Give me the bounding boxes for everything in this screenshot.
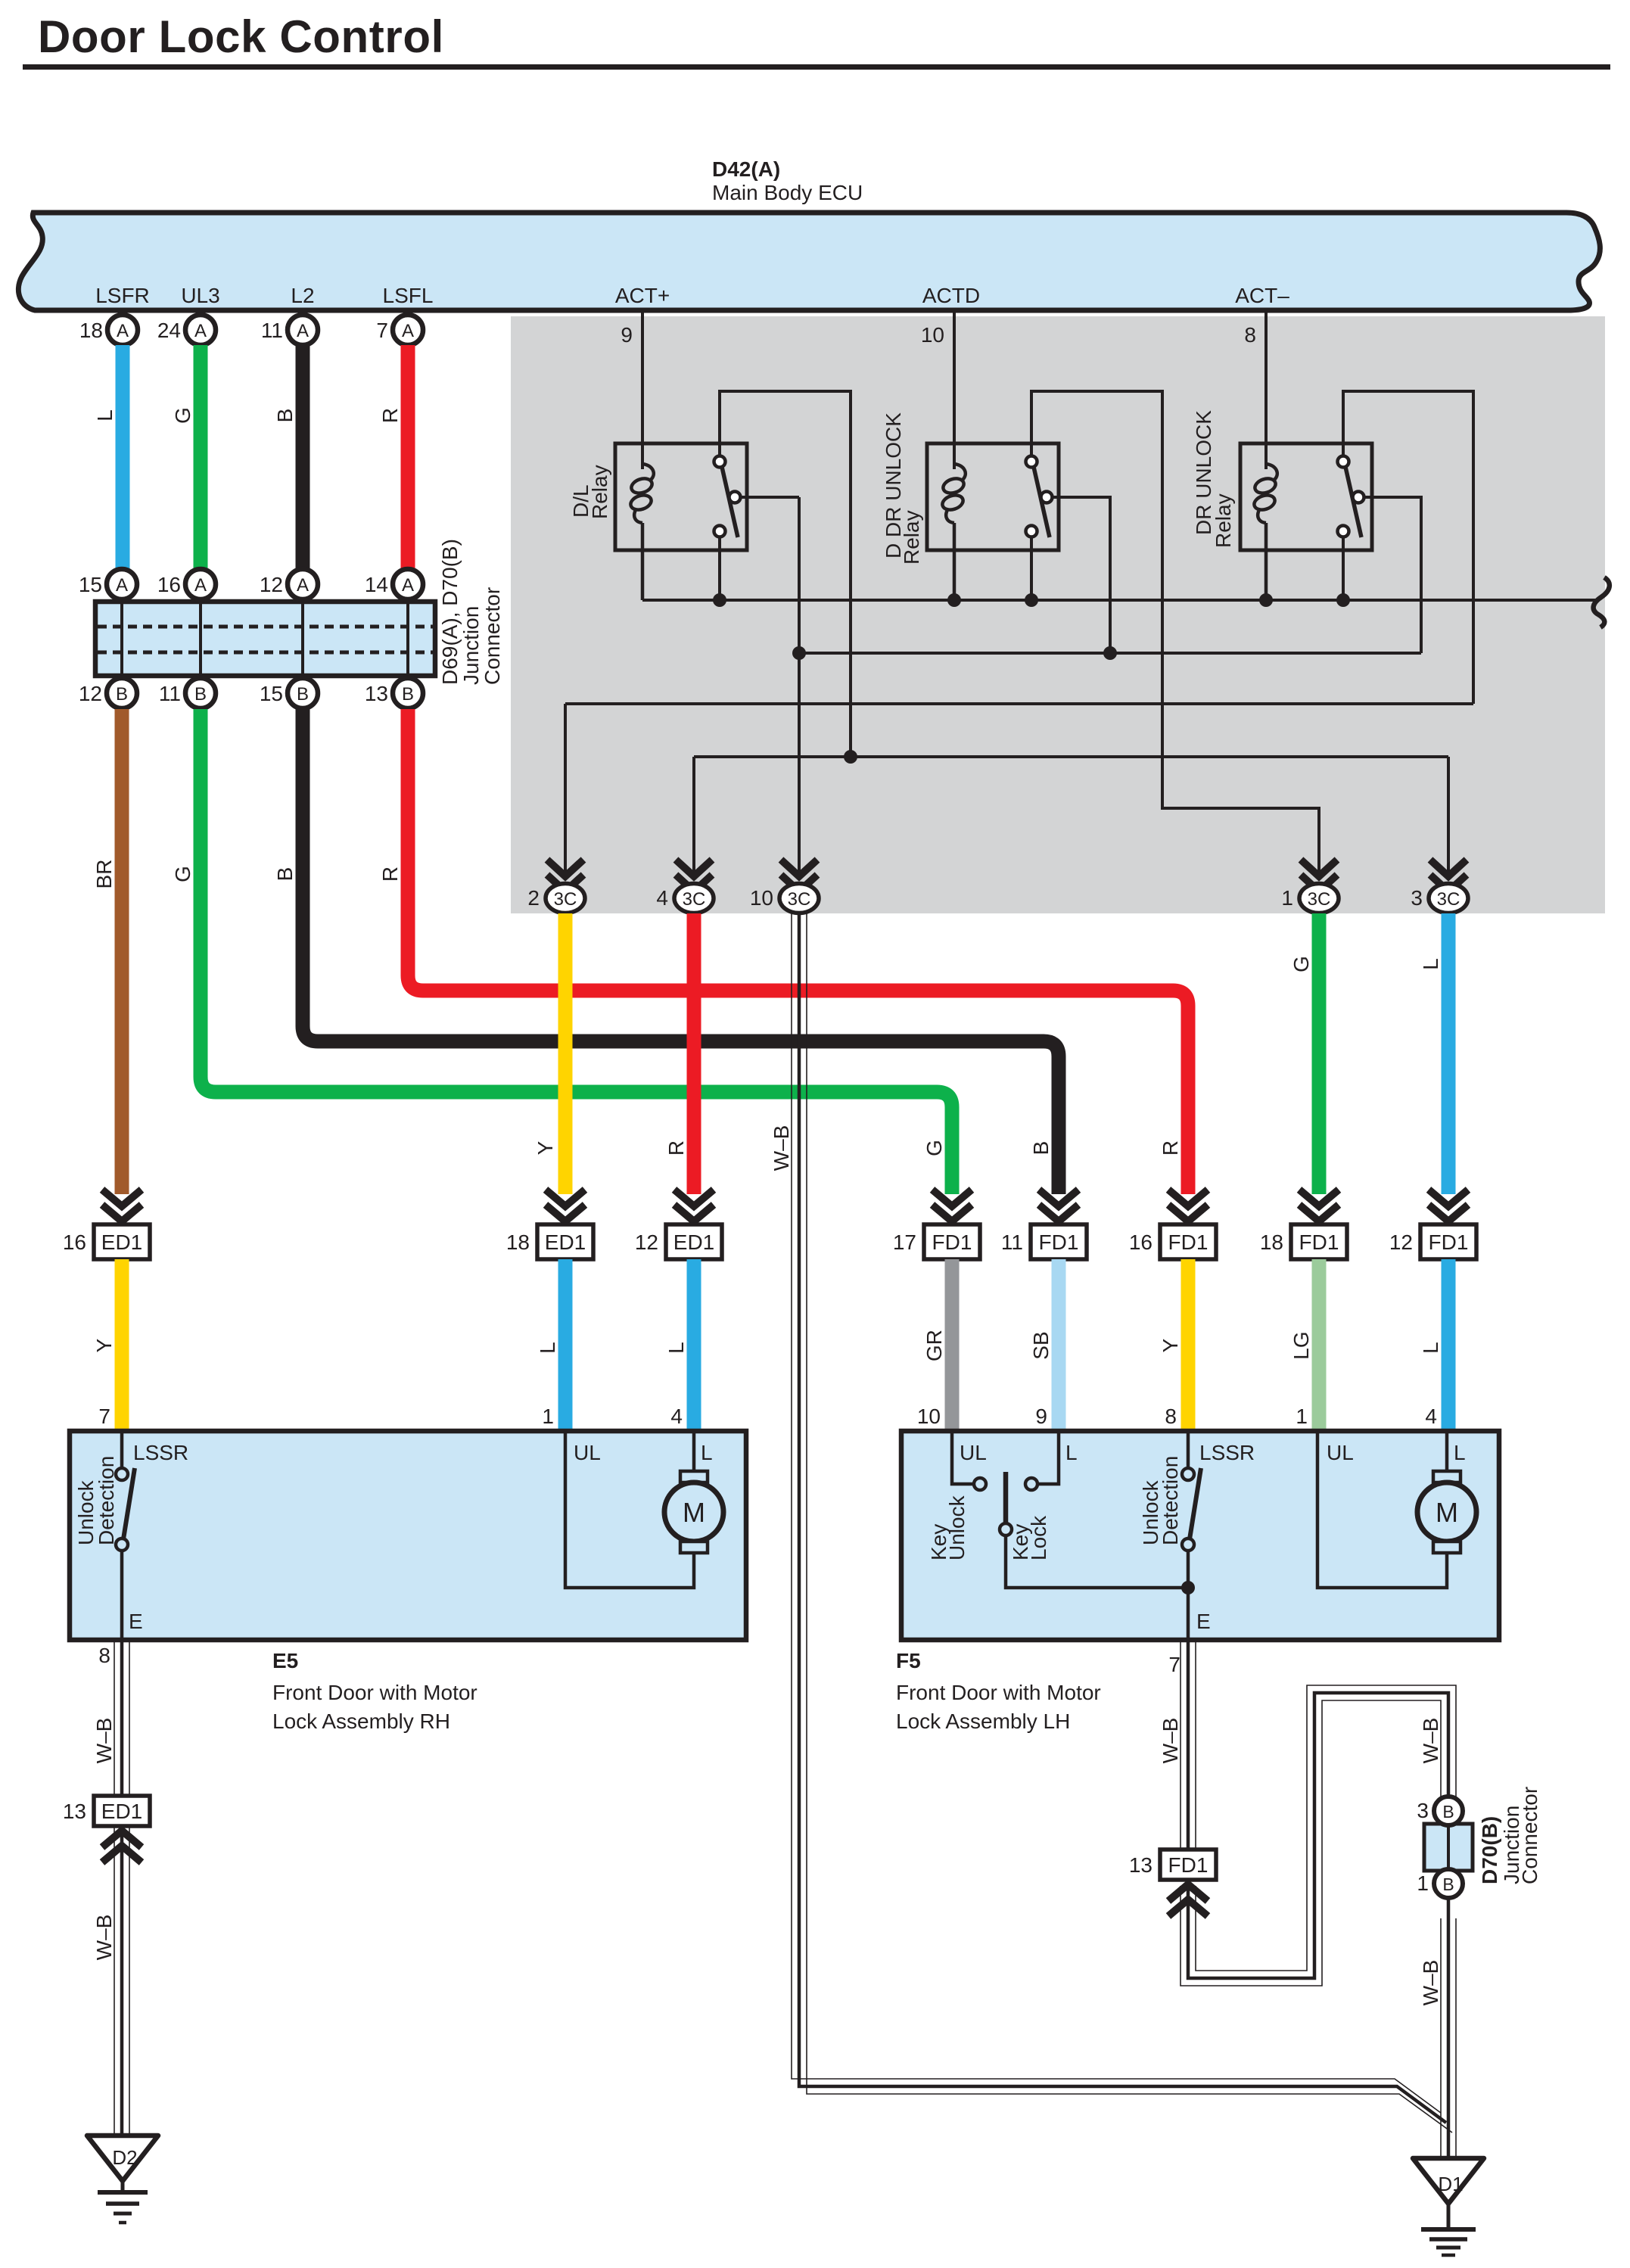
svg-text:4: 4 (656, 886, 668, 910)
svg-text:Unlock: Unlock (945, 1495, 969, 1560)
pin 10 lead (953, 313, 956, 469)
svg-text:D2: D2 (112, 2146, 137, 2169)
svg-text:8: 8 (1244, 323, 1256, 347)
svg-text:W–B: W–B (1419, 1960, 1442, 2006)
svg-text:3C: 3C (1308, 889, 1331, 910)
svg-text:L2: L2 (291, 284, 314, 307)
svg-text:8: 8 (1165, 1405, 1177, 1428)
net wire y=863 relay commons (799, 652, 1421, 655)
pin 8 lead (1264, 313, 1268, 469)
svg-text:Detection: Detection (1159, 1456, 1182, 1545)
svg-text:24: 24 (157, 319, 181, 342)
arrow into 2 3C (547, 860, 583, 891)
svg-text:2: 2 (527, 886, 540, 910)
svg-text:1: 1 (1281, 886, 1293, 910)
svg-text:UL: UL (574, 1441, 601, 1464)
wire SB sky blue FD1-11 to F5 pin9 (1052, 1259, 1066, 1431)
svg-text:L: L (664, 1342, 688, 1354)
wire L blue 3-3C to FD1-12 (1442, 913, 1456, 1194)
wire W-B 10-3C down and across to D1 (799, 913, 1446, 2123)
svg-text:13: 13 (63, 1800, 86, 1823)
svg-text:G: G (1289, 956, 1313, 972)
ground D1 (1413, 2158, 1484, 2204)
svg-text:13: 13 (1129, 1853, 1153, 1877)
arrow into FD1-16 (1168, 1190, 1208, 1221)
svg-text:UL3: UL3 (181, 284, 219, 307)
wire L blue ED1-18 to E5 pin1 (558, 1259, 573, 1431)
arrow into FD1-12 (1429, 1190, 1468, 1221)
svg-text:GR: GR (922, 1330, 946, 1361)
connector ED1 13 (94, 1796, 150, 1826)
svg-text:Main Body ECU: Main Body ECU (712, 181, 863, 204)
wire Y yellow ED1-16 to E5 pin7 (115, 1259, 129, 1431)
wire B black 15B to FD1-11 (303, 709, 1059, 1194)
svg-text:A: A (402, 575, 414, 596)
svg-text:R: R (664, 1140, 688, 1156)
svg-text:3: 3 (1417, 1799, 1429, 1822)
svg-text:A: A (117, 321, 129, 341)
wire B black pin11 to junction (296, 345, 310, 569)
arrow out of FD1-13 (1168, 1884, 1208, 1916)
junction pin 14 A (393, 569, 423, 599)
svg-text:11: 11 (159, 682, 181, 705)
svg-text:E5: E5 (272, 1649, 298, 1672)
svg-text:W–B: W–B (1159, 1718, 1182, 1764)
svg-text:18: 18 (79, 319, 103, 342)
connector FD1 17 (924, 1224, 980, 1259)
svg-text:D69(A), D70(B): D69(A), D70(B) (438, 539, 462, 685)
arrow into ED1-16 (102, 1190, 142, 1221)
pin 24 A circle (185, 315, 216, 345)
wire W-B F5 pin7 to FD1-13 (1187, 1640, 1190, 1850)
svg-text:1: 1 (542, 1405, 554, 1428)
svg-text:R: R (378, 408, 402, 423)
svg-text:Junction: Junction (459, 606, 483, 685)
svg-text:FD1: FD1 (1039, 1230, 1079, 1254)
junction pin 15 A (107, 569, 137, 599)
svg-text:FD1: FD1 (1299, 1230, 1339, 1254)
svg-text:11: 11 (261, 319, 283, 342)
svg-text:16: 16 (63, 1230, 86, 1254)
svg-text:3C: 3C (788, 889, 811, 910)
svg-text:A: A (297, 321, 309, 341)
svg-text:G: G (922, 1140, 946, 1156)
svg-text:ACTD: ACTD (922, 284, 980, 307)
svg-text:18: 18 (506, 1230, 530, 1254)
junction pin 13 B (393, 678, 423, 708)
pin 18 A circle (107, 315, 138, 345)
wire L blue pin18 to junction (116, 345, 130, 569)
junction pin 12 A (288, 569, 318, 599)
svg-text:B: B (1442, 1802, 1454, 1822)
junction pin 1 B (1434, 1869, 1463, 1898)
svg-text:FD1: FD1 (1168, 1230, 1209, 1254)
E5 motor M (692, 1431, 696, 1472)
svg-text:3C: 3C (1437, 889, 1460, 910)
junction pin 3 B (1434, 1797, 1463, 1825)
svg-text:L: L (1419, 1342, 1442, 1354)
svg-text:G: G (171, 407, 194, 424)
wire W-B D70(B) 1B to ground D1 (1447, 1898, 1451, 2158)
svg-text:Y: Y (533, 1140, 557, 1155)
wire G green 11B to FD1-17 (201, 709, 952, 1194)
svg-text:W–B: W–B (92, 1915, 116, 1961)
svg-text:Door Lock Control: Door Lock Control (38, 11, 444, 62)
svg-text:4: 4 (1425, 1405, 1437, 1428)
svg-text:15: 15 (79, 573, 102, 596)
relay DR UNLOCK Relay box (1240, 443, 1372, 550)
svg-text:7: 7 (98, 1405, 110, 1428)
wire G green 1-3C to FD1-18 (1312, 913, 1327, 1194)
svg-text:Connector: Connector (1518, 1787, 1541, 1884)
connector 3 3C (1429, 884, 1468, 913)
svg-text:Lock Assembly RH: Lock Assembly RH (272, 1710, 450, 1733)
F5 unlock detection switch (1187, 1431, 1190, 1468)
svg-text:18: 18 (1260, 1230, 1283, 1254)
arrow into FD1-17 (932, 1190, 972, 1221)
svg-text:Front Door with Motor: Front Door with Motor (272, 1681, 477, 1704)
relay2 switch (1031, 391, 1319, 878)
svg-text:ED1: ED1 (545, 1230, 586, 1254)
Main Body ECU connector band D42(A) (18, 213, 1600, 310)
svg-text:Front Door with Motor: Front Door with Motor (896, 1681, 1101, 1704)
connector 10 3C (779, 884, 819, 913)
svg-text:10: 10 (750, 886, 773, 910)
E5 Front Door Lock Assembly RH box (70, 1431, 746, 1640)
relay3 switch (1343, 391, 1473, 704)
connector ED1 16 (94, 1224, 150, 1259)
relay1 coil (642, 464, 654, 480)
net wire y=930 (565, 702, 1473, 705)
wire L blue FD1-12 to F5 pin4 (1442, 1259, 1456, 1431)
svg-text:A: A (194, 575, 207, 596)
svg-text:ED1: ED1 (673, 1230, 714, 1254)
svg-text:D70(B): D70(B) (1478, 1816, 1501, 1884)
svg-text:LSSR: LSSR (1199, 1441, 1255, 1464)
svg-text:15: 15 (260, 682, 283, 705)
pin 7 A circle (393, 315, 423, 345)
title underline (23, 64, 1610, 70)
svg-text:D1: D1 (1438, 2173, 1463, 2195)
arrow into FD1-11 (1039, 1190, 1078, 1221)
junction bar column lines (122, 604, 408, 674)
svg-text:Lock Assembly LH: Lock Assembly LH (896, 1710, 1070, 1733)
svg-text:10: 10 (917, 1405, 941, 1428)
rail break squiggle at gray edge (1594, 577, 1610, 627)
svg-text:L: L (536, 1342, 559, 1354)
junction pin 12 B (107, 678, 137, 708)
wire G green pin24 to junction (194, 345, 208, 569)
junction connector D70(B) box (1424, 1824, 1473, 1871)
svg-text:FD1: FD1 (932, 1230, 972, 1254)
svg-text:3C: 3C (554, 889, 577, 910)
svg-text:L: L (1454, 1441, 1466, 1464)
svg-text:FD1: FD1 (1429, 1230, 1469, 1254)
connector FD1 18 (1291, 1224, 1347, 1259)
wire Y yellow FD1-16 to F5 pin8 (1181, 1259, 1196, 1431)
svg-text:Relay: Relay (1212, 493, 1235, 548)
svg-text:1: 1 (1296, 1405, 1308, 1428)
F5 UL line (1317, 1431, 1447, 1588)
junction connector D69(A),D70(B) bar (95, 602, 435, 676)
net wire y=1000 (694, 755, 1448, 758)
svg-text:16: 16 (157, 573, 181, 596)
svg-text:R: R (378, 866, 402, 882)
svg-text:ED1: ED1 (101, 1230, 142, 1254)
F5 motor M (1445, 1431, 1449, 1472)
connector FD1 12 (1420, 1224, 1476, 1259)
arrow into FD1-18 (1299, 1190, 1339, 1221)
wire GR gray FD1-17 to F5 pin10 (945, 1259, 960, 1431)
rail junction dots (713, 593, 726, 607)
arrow into 4 3C (676, 860, 712, 891)
svg-text:L: L (1065, 1441, 1078, 1464)
connector 4 3C (674, 884, 714, 913)
svg-text:Relay: Relay (588, 465, 611, 519)
wire Y yellow 2-3C to ED1-18 (558, 913, 573, 1194)
svg-text:ACT+: ACT+ (615, 284, 670, 307)
svg-text:12: 12 (79, 682, 102, 705)
arrow out of ED1-13 (102, 1831, 142, 1862)
wire W-B E5 pin8 to ground D2 (120, 1640, 124, 2136)
wire LG light green FD1-18 to F5 pin1 (1312, 1259, 1327, 1431)
svg-text:1: 1 (1417, 1871, 1429, 1895)
svg-text:G: G (171, 866, 194, 882)
pin 9 lead (641, 313, 644, 469)
F5 Front Door Lock Assembly LH box (901, 1431, 1499, 1640)
svg-text:A: A (297, 575, 309, 596)
wire W-B FD1-13 loop to D70(B) pin 3B (1188, 1693, 1448, 1978)
svg-text:L: L (93, 409, 117, 422)
svg-text:7: 7 (376, 319, 388, 342)
svg-text:7: 7 (1168, 1653, 1181, 1676)
arrow into 1 3C (1301, 860, 1337, 891)
svg-text:B: B (402, 684, 414, 705)
svg-text:BR: BR (92, 860, 116, 889)
connector ED1 18 (537, 1224, 593, 1259)
junction bar dashed bus lines (98, 625, 433, 629)
svg-text:3: 3 (1411, 886, 1423, 910)
svg-text:14: 14 (365, 573, 388, 596)
arrow into 3 3C (1430, 860, 1467, 891)
common rail wire y=793 (642, 599, 1598, 602)
svg-text:11: 11 (1001, 1230, 1023, 1254)
svg-text:F5: F5 (896, 1649, 921, 1672)
svg-text:9: 9 (621, 323, 633, 347)
arrow into 10 3C (781, 860, 817, 891)
svg-text:L: L (701, 1441, 713, 1464)
svg-text:9: 9 (1035, 1405, 1047, 1428)
svg-text:LSFL: LSFL (383, 284, 434, 307)
wire L blue ED1-12 to E5 pin4 (687, 1259, 701, 1431)
junction pin 11 B (185, 678, 216, 708)
svg-text:12: 12 (635, 1230, 658, 1254)
relay2 coil (954, 464, 966, 480)
svg-text:8: 8 (98, 1644, 110, 1667)
svg-text:A: A (194, 321, 207, 341)
svg-text:R: R (1159, 1140, 1182, 1156)
relay D/L Relay box (615, 443, 747, 550)
svg-text:M: M (1436, 1497, 1458, 1528)
svg-text:UL: UL (960, 1441, 987, 1464)
svg-text:B: B (1442, 1874, 1454, 1894)
E5 UL line (565, 1431, 694, 1588)
svg-text:M: M (683, 1497, 705, 1528)
svg-text:A: A (116, 575, 128, 596)
svg-text:Detection: Detection (95, 1456, 118, 1545)
svg-text:Relay: Relay (900, 510, 923, 565)
svg-text:LSSR: LSSR (133, 1441, 188, 1464)
svg-text:UL: UL (1327, 1441, 1354, 1464)
ECU internal gray area (511, 316, 1605, 913)
svg-text:Lock: Lock (1027, 1515, 1050, 1560)
svg-text:W–B: W–B (770, 1125, 793, 1171)
svg-text:FD1: FD1 (1168, 1853, 1209, 1877)
svg-text:B: B (297, 684, 309, 705)
relay3 coil (1266, 464, 1277, 480)
junction pin 16 A (185, 569, 216, 599)
relay D DR UNLOCK Relay box (927, 443, 1059, 550)
svg-text:12: 12 (1389, 1230, 1413, 1254)
svg-text:B: B (273, 867, 297, 882)
svg-text:W–B: W–B (1419, 1718, 1442, 1764)
relay1 switch (720, 391, 851, 757)
svg-text:3C: 3C (683, 889, 706, 910)
svg-text:LSFR: LSFR (95, 284, 150, 307)
connector 1 3C (1299, 884, 1339, 913)
F5 key lock switch (952, 1431, 974, 1484)
wire R red 13B to FD1-16 (408, 709, 1188, 1194)
svg-text:L: L (1419, 958, 1442, 970)
connector 2 3C (546, 884, 585, 913)
arrow into ED1-12 (674, 1190, 714, 1221)
connector ED1 12 (666, 1224, 722, 1259)
svg-text:17: 17 (893, 1230, 916, 1254)
wire BR brown 12B to ED1-16 (115, 709, 129, 1194)
connector FD1 16 (1160, 1224, 1216, 1259)
svg-text:Connector: Connector (481, 587, 504, 685)
svg-text:LG: LG (1289, 1331, 1313, 1359)
svg-text:4: 4 (670, 1405, 683, 1428)
svg-text:12: 12 (260, 573, 283, 596)
ground D2 (87, 2136, 158, 2181)
svg-text:B: B (116, 684, 128, 705)
svg-text:SB: SB (1029, 1331, 1053, 1359)
E5 unlock detection switch (120, 1431, 124, 1468)
junction pin 15 B (288, 678, 318, 708)
svg-text:B: B (194, 684, 207, 705)
svg-text:D42(A): D42(A) (712, 157, 780, 181)
svg-text:E: E (1196, 1610, 1211, 1633)
arrow into ED1-18 (546, 1190, 585, 1221)
svg-text:ACT–: ACT– (1235, 284, 1289, 307)
connector FD1 11 (1031, 1224, 1087, 1259)
wire R red 4-3C to ED1-12 (687, 913, 701, 1194)
svg-text:B: B (273, 409, 297, 423)
wire R red pin7 to junction (401, 345, 415, 569)
svg-text:ED1: ED1 (101, 1800, 142, 1823)
connector FD1 13 (1160, 1850, 1216, 1880)
svg-text:Y: Y (92, 1338, 116, 1352)
wire drops to 3C connectors (564, 704, 567, 878)
svg-text:10: 10 (921, 323, 944, 347)
svg-text:A: A (402, 321, 414, 341)
svg-text:E: E (129, 1610, 143, 1633)
svg-text:13: 13 (365, 682, 388, 705)
svg-text:B: B (1029, 1141, 1053, 1156)
svg-text:W–B: W–B (92, 1718, 116, 1764)
pin 11 A circle (288, 315, 318, 345)
svg-text:Y: Y (1159, 1338, 1182, 1352)
svg-text:16: 16 (1129, 1230, 1153, 1254)
